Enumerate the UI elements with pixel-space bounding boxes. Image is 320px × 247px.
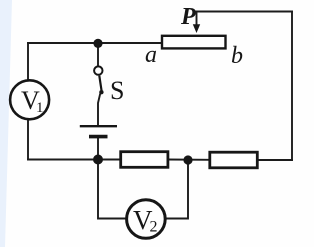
resistor R2	[210, 152, 257, 168]
voltmeter V1	[10, 80, 49, 119]
svg-text:S: S	[110, 76, 124, 105]
node junction top (switch branch)	[93, 39, 102, 48]
wire V2 left leg	[98, 160, 125, 219]
wire left vertical lower	[27, 120, 29, 160]
battery cell	[80, 126, 117, 136]
wire wiper top horizontal	[197, 11, 293, 13]
wire switch to battery	[98, 95, 100, 126]
wire battery to node	[97, 138, 99, 160]
wire bottom bus right	[258, 159, 293, 161]
wire top bus	[28, 42, 162, 44]
svg-text:P: P	[180, 4, 196, 30]
voltmeter V2	[127, 200, 166, 239]
wire right vertical	[291, 12, 293, 161]
resistor R1	[121, 152, 168, 168]
wire wiper vertical	[196, 12, 198, 26]
node junction bottom-right	[183, 155, 192, 164]
wire bottom bus middle	[168, 159, 210, 161]
svg-text:a: a	[145, 42, 157, 68]
switch S	[94, 66, 104, 94]
node junction bottom-left	[93, 155, 103, 165]
svg-text:2: 2	[150, 219, 158, 236]
wiper P arrow	[193, 24, 200, 33]
wire V2 right leg	[167, 160, 189, 219]
wire left vertical upper	[27, 43, 29, 80]
svg-text:b: b	[231, 43, 243, 69]
rheostat ab	[162, 36, 226, 49]
wire bottom bus left	[28, 159, 121, 161]
wire switch drop	[97, 48, 99, 66]
svg-text:1: 1	[36, 100, 44, 116]
scan margin strip	[0, 0, 12, 247]
